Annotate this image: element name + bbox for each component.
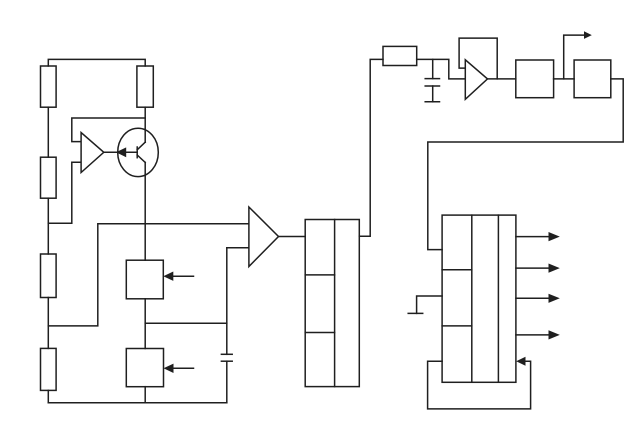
block N row divider 1: [442, 269, 472, 271]
wire capacitor branch upper: [226, 248, 228, 354]
wire bottom bus: [48, 402, 227, 404]
block B3: [516, 60, 554, 98]
wire feedback loop: [428, 361, 531, 409]
resistor R5: [137, 66, 153, 107]
block N row divider 2: [442, 325, 472, 327]
output arrow 1: [516, 232, 560, 241]
resistor R3: [41, 254, 57, 298]
wire U2 lower input: [227, 247, 249, 249]
output arrow 3: [516, 294, 560, 303]
wire Q1 collector: [144, 107, 146, 142]
wire left rail segment 2: [47, 198, 49, 254]
wire block M to resistor R6: [359, 59, 383, 236]
wire left rail segment 4: [47, 390, 49, 402]
block M row divider 1: [305, 274, 334, 276]
resistor R1: [41, 66, 57, 107]
block B1: [126, 260, 163, 299]
capacitor C1: [221, 354, 232, 361]
resistor R4: [41, 348, 57, 390]
wire Q1 emitter to block B1: [144, 162, 146, 260]
block M outline: [305, 220, 359, 387]
wire C2 to ground: [432, 86, 434, 102]
resistor R2: [41, 157, 57, 198]
wire U1 noninverting input from node A: [72, 118, 145, 142]
block M row divider 2: [305, 332, 334, 334]
wire B4 output down and around to block N input: [428, 79, 623, 250]
block N vertical divider 2: [497, 215, 499, 382]
wire output tap upward: [564, 35, 584, 79]
wire U1 inverting input from left rail: [48, 162, 81, 223]
transistor Q1 base bar: [136, 147, 138, 158]
transistor Q1 collector diagonal: [137, 142, 145, 150]
block M vertical divider: [334, 220, 336, 387]
block N outline: [442, 215, 516, 382]
arrowhead feedback into block N: [516, 357, 525, 366]
capacitor C2: [425, 79, 439, 86]
resistor R6: [383, 46, 417, 65]
wire block N to ground: [417, 296, 443, 313]
wire top rail: [48, 59, 145, 66]
transistor Q1 emitter diagonal: [137, 155, 145, 162]
wire U2 upper input from left rail tap: [48, 224, 249, 326]
block U3 outline: [459, 38, 497, 79]
op-amp U1: [81, 133, 104, 173]
arrowhead on Q1 base wire: [116, 147, 126, 157]
wire B2 bottom to bottom bus: [144, 387, 146, 403]
wire capacitor C2 stub: [432, 59, 434, 78]
wire B1 to B2: [144, 299, 146, 349]
wire U2 output to block M: [279, 236, 306, 238]
buffer U2: [249, 207, 279, 267]
transistor Q1 body: [118, 128, 159, 176]
wire R6 output to U3 input: [417, 59, 466, 79]
ground bar: [408, 312, 423, 314]
wire U3 output to block B3: [488, 78, 516, 80]
wire B3 to B4: [554, 78, 575, 80]
wire U1 output to Q1 base: [104, 151, 137, 153]
amplifier U3 triangle: [465, 60, 487, 100]
output arrow 2: [516, 264, 560, 273]
wire left rail segment 1: [47, 107, 49, 157]
arrow into B1: [163, 272, 193, 281]
arrowhead top output: [584, 31, 592, 39]
wire capacitor branch lower: [226, 361, 228, 403]
wire left rail segment 3: [47, 298, 49, 349]
ground bar below C2: [425, 101, 439, 103]
block B4: [574, 60, 611, 98]
wire tap B1/B2 node to capacitor C1 branch: [145, 322, 227, 324]
output arrow 4: [516, 330, 560, 339]
block N vertical divider 1: [471, 215, 473, 382]
arrow into B2: [164, 364, 194, 373]
block B2: [126, 349, 163, 387]
